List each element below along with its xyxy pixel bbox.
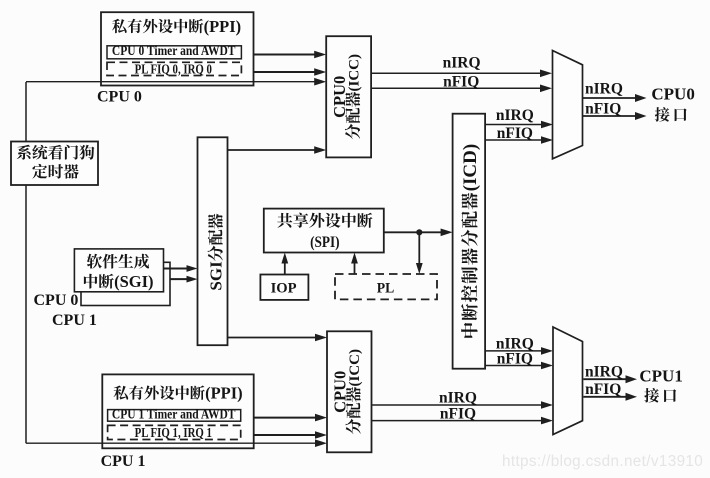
box system watchdog timer 系统看门狗定时器 <box>11 142 98 186</box>
svg-text:nFIQ: nFIQ <box>497 125 533 142</box>
box CPU0 ICC (top) CPU0分配器(ICC) <box>326 36 371 157</box>
junction dot on SPI wire <box>416 229 422 235</box>
wire watchdog to CPU0 ICC (top horizontal) <box>26 81 316 83</box>
label CPU 1 Timer and AWDT <box>112 407 236 422</box>
box CPU 0 Timer and AWDT <box>107 46 241 59</box>
box interrupt controller distributor 中断控制器分配器(ICD) <box>453 114 486 369</box>
wire ICC1 nIRQ to mux1 <box>372 404 544 406</box>
svg-text:CPU 0: CPU 0 <box>34 292 79 309</box>
wire SPI to ICD <box>384 231 443 233</box>
label PL FIQ 1, IRQ 1 <box>135 425 212 440</box>
label 私有外设中断(PPI) bottom <box>114 386 205 400</box>
box PL (dashed) <box>335 274 437 299</box>
svg-text:nIRQ: nIRQ <box>496 107 534 124</box>
svg-text:nIRQ: nIRQ <box>439 389 477 406</box>
svg-text:(SGI): (SGI) <box>114 272 153 291</box>
svg-text:PL FIQ 1, IRQ 1: PL FIQ 1, IRQ 1 <box>135 425 212 440</box>
svg-text:CPU 1 Timer and AWDT: CPU 1 Timer and AWDT <box>112 407 236 422</box>
label (SPI) <box>310 234 340 251</box>
label CPU0 分配器(ICC) (rotated, bottom) <box>331 349 364 434</box>
label PL <box>377 280 395 297</box>
svg-text:(PPI): (PPI) <box>204 17 242 36</box>
wire SGI distributor to ICC0 <box>228 149 317 151</box>
svg-text:(SPI): (SPI) <box>310 234 340 251</box>
wire ICD nFIQ to mux1 <box>485 365 543 367</box>
wire system-watchdog vertical bus <box>25 82 27 443</box>
wire ICD nFIQ to mux0 <box>485 139 543 141</box>
wire mux0 nIRQ out <box>583 97 637 99</box>
box IOP <box>260 275 308 300</box>
label 接口 (top) <box>655 107 687 122</box>
svg-text:nIRQ: nIRQ <box>585 81 623 98</box>
wire watchdog to CPU1 ICC (bottom horizontal) <box>26 442 317 444</box>
wire mux1 nFIQ out <box>583 396 627 398</box>
svg-text:https://blog.csdn.net/v13910: https://blog.csdn.net/v13910 <box>502 453 703 470</box>
label 私有外设中断(PPI) <box>112 19 203 33</box>
wire SGI distributor to ICC1 <box>228 337 318 339</box>
label 中断控制器分配器(ICD) (rotated) <box>460 144 481 338</box>
svg-text:(ICC): (ICC) <box>347 54 363 92</box>
svg-text:CPU 1: CPU 1 <box>101 453 146 470</box>
svg-text:CPU 0 Timer and AWDT: CPU 0 Timer and AWDT <box>112 43 236 58</box>
svg-text:CPU 0: CPU 0 <box>97 89 142 106</box>
wire ICC1 nFIQ to mux1 <box>372 420 544 422</box>
svg-text:nFIQ: nFIQ <box>440 406 476 423</box>
wire PL up to SPI <box>354 262 356 275</box>
label 系统看门狗 <box>17 145 95 160</box>
box SGI source shadow (CPU1) <box>81 262 170 305</box>
wire ICD nIRQ to mux1 <box>485 350 543 352</box>
svg-text:IOP: IOP <box>271 280 297 296</box>
svg-text:nFIQ: nFIQ <box>443 74 479 91</box>
box PL FIQ 0, IRQ 0 (dashed) <box>107 62 241 75</box>
wire PPI0 to ICC0 line 1 <box>254 54 317 56</box>
box shared peripheral interrupts 共享外设中断(SPI) <box>264 209 384 253</box>
box PPI0 私有外设中断(PPI) <box>101 12 254 85</box>
label 中断(SGI) <box>84 274 114 289</box>
box PPI1 私有外设中断(PPI) <box>102 374 253 448</box>
svg-text:nIRQ: nIRQ <box>443 55 481 72</box>
label IOP <box>271 280 297 296</box>
wire ICC0 nIRQ to mux0 <box>371 72 542 74</box>
svg-text:nFIQ: nFIQ <box>585 100 621 117</box>
wire PPI1 to ICC1 line 2 <box>254 434 317 436</box>
wire IOP up to SPI <box>284 262 286 275</box>
label CPU0 分配器(ICC) (rotated, top) <box>330 54 363 139</box>
svg-text:CPU0: CPU0 <box>651 85 694 104</box>
wire SGI source to SGI distributor 2 <box>170 278 189 280</box>
wire SGI source to SGI distributor 1 <box>164 268 189 270</box>
label SGI分配器 (rotated) <box>206 214 225 291</box>
label 定时器 <box>32 164 78 179</box>
label 接口 (bottom) <box>644 388 676 403</box>
box CPU0 ICC (bottom) CPU0分配器(ICC) <box>327 331 372 452</box>
wire ICD nIRQ to mux0 <box>485 124 543 126</box>
svg-text:CPU 1: CPU 1 <box>52 312 97 329</box>
mux trapezoid CPU0 <box>553 51 583 159</box>
label 共享外设中断 <box>277 213 372 228</box>
svg-text:nIRQ: nIRQ <box>585 364 623 381</box>
label PL FIQ 0, IRQ 0 <box>135 61 212 76</box>
svg-text:(ICD): (ICD) <box>460 144 481 192</box>
wire PPI1 to ICC1 line 1 <box>254 417 317 419</box>
svg-text:PL: PL <box>377 280 395 297</box>
svg-text:(ICC): (ICC) <box>347 349 363 387</box>
label CPU 0 Timer and AWDT <box>112 43 236 58</box>
svg-text:(PPI): (PPI) <box>205 384 243 403</box>
wire ICC0 nFIQ to mux0 <box>371 87 542 89</box>
box PL FIQ 1, IRQ 1 (dashed) <box>108 425 241 439</box>
label 软件生成 <box>87 254 149 269</box>
svg-text:CPU1: CPU1 <box>639 367 682 386</box>
box SGI distributor SGI分配器 <box>198 137 228 345</box>
svg-text:SGI: SGI <box>206 261 225 291</box>
wire PPI0 to ICC0 line 2 <box>254 71 317 73</box>
mux trapezoid CPU1 <box>553 327 583 435</box>
svg-text:PL FIQ 0, IRQ 0: PL FIQ 0, IRQ 0 <box>135 61 212 76</box>
wire mux0 nFIQ out <box>583 115 637 117</box>
box software generated interrupts 软件生成中断(SGI) <box>74 249 163 292</box>
wire mux1 nIRQ out <box>583 378 627 380</box>
svg-text:nFIQ: nFIQ <box>585 381 621 398</box>
box CPU 1 Timer and AWDT <box>108 410 241 422</box>
wire junction down to PL <box>418 232 420 265</box>
svg-text:nFIQ: nFIQ <box>497 350 533 367</box>
